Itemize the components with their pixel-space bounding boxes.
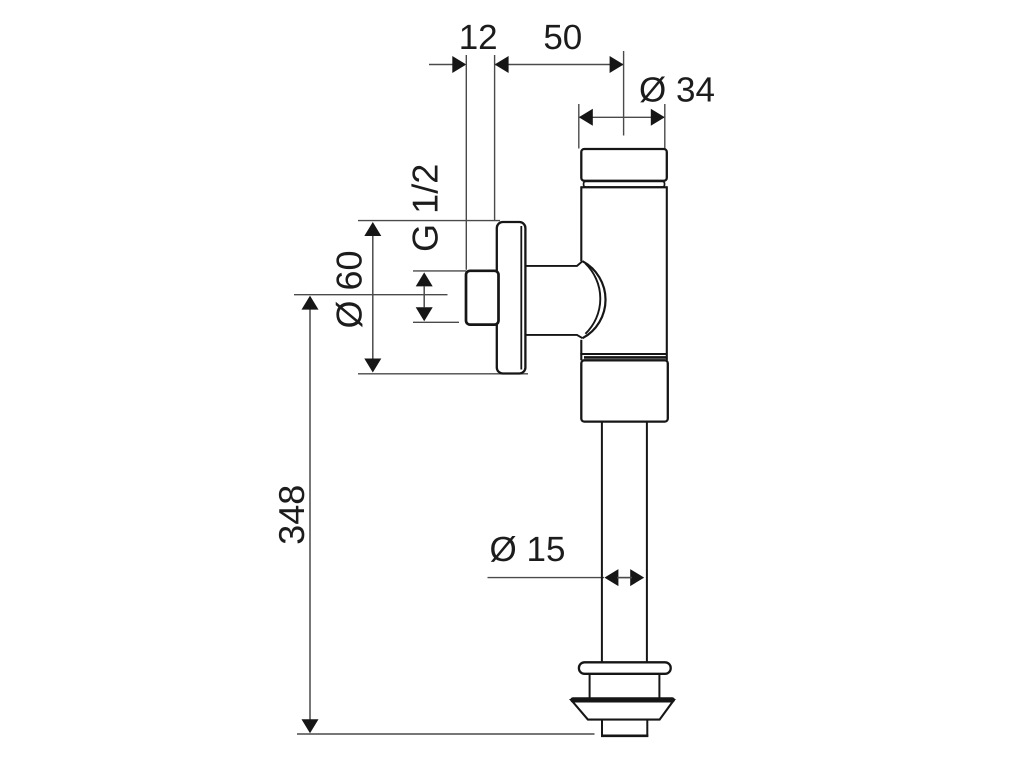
svg-text:Ø 60: Ø 60 — [329, 250, 370, 328]
svg-text:Ø 15: Ø 15 — [490, 530, 566, 569]
svg-text:348: 348 — [271, 485, 312, 545]
svg-text:Ø 34: Ø 34 — [639, 71, 715, 110]
svg-text:12: 12 — [459, 18, 498, 57]
svg-text:50: 50 — [543, 18, 582, 57]
svg-text:G 1/2: G 1/2 — [405, 164, 446, 252]
